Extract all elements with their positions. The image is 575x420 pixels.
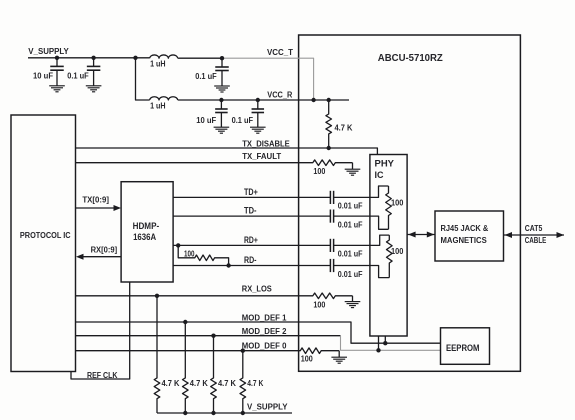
- capacitor C2 0.1 uF: [87, 58, 101, 86]
- wire stem to ground: [352, 296, 354, 302]
- capacitor 0.01 uF on RD-: [330, 259, 333, 272]
- svg-text:10 uF: 10 uF: [33, 72, 53, 81]
- node PHY-EEPROM lower: [376, 348, 380, 352]
- node R1 top: [327, 98, 331, 102]
- bus RX[0:9] arrowhead: [76, 254, 84, 260]
- wire RD+ into PHY with up-jog: [334, 235, 390, 245]
- bus TX[0:9] arrowhead: [114, 205, 122, 211]
- wire RD-: [173, 265, 330, 267]
- svg-text:RJ45 JACK &: RJ45 JACK &: [441, 224, 489, 233]
- ground C3: [214, 86, 230, 92]
- svg-text:VCC_T: VCC_T: [267, 48, 293, 57]
- ground RX_LOS: [345, 302, 361, 308]
- node RD- tap: [226, 263, 230, 267]
- svg-text:MAGNETICS: MAGNETICS: [441, 236, 488, 245]
- svg-text:1 uH: 1 uH: [150, 101, 166, 110]
- wire TD+ into PHY with up-jog: [334, 186, 389, 197]
- svg-text:RD+: RD+: [244, 235, 258, 245]
- svg-text:100: 100: [301, 354, 314, 363]
- node C5: [256, 98, 260, 102]
- wire MOD_DEF 0 with resistor 100: [76, 348, 340, 354]
- svg-text:0.01 uF: 0.01 uF: [338, 270, 363, 279]
- arrow PHY to RJ45: [407, 234, 435, 236]
- wire TX_DISABLE: [76, 148, 378, 155]
- resistor R5 4.7 K pull-up: [240, 351, 246, 413]
- svg-text:100: 100: [391, 247, 404, 256]
- svg-text:VCC_R: VCC_R: [267, 91, 292, 100]
- wire VCC_T jog into module: [222, 58, 314, 100]
- wire VCC_R rail: [178, 99, 349, 101]
- node MOD_DEF2 pull-up tap: [211, 334, 215, 338]
- ground C5: [250, 127, 266, 133]
- node rail 2: [211, 411, 215, 415]
- PHY IC box: [370, 155, 407, 337]
- node PHY-EEPROM upper: [383, 341, 387, 345]
- capacitor 0.01 uF on TD-: [330, 210, 333, 223]
- svg-text:1636A: 1636A: [133, 232, 156, 242]
- node RX_LOS pull-up tap: [155, 294, 159, 298]
- node C4: [219, 98, 223, 102]
- resistor R3 4.7 K pull-up: [183, 322, 189, 413]
- arrow RJ45 to CAT5 cable: [504, 234, 565, 236]
- svg-text:EEPROM: EEPROM: [446, 343, 480, 353]
- wire PHY pin to MOD_DEF 2 line: [378, 336, 380, 350]
- capacitor C5 0.1 uF on VCC_R: [252, 100, 264, 127]
- svg-text:MOD_DEF 0: MOD_DEF 0: [242, 340, 287, 350]
- svg-text:0.01 uF: 0.01 uF: [338, 249, 363, 258]
- wire VCC_T: [178, 57, 222, 59]
- svg-text:REF CLK: REF CLK: [87, 371, 118, 380]
- svg-text:0.1 uF: 0.1 uF: [232, 116, 254, 125]
- resistor 100 across RD pair near HDMP: [178, 245, 228, 265]
- svg-text:1 uH: 1 uH: [150, 59, 166, 68]
- svg-text:TX[0:9]: TX[0:9]: [82, 196, 109, 205]
- node MOD_DEF0 pull-up tap: [241, 349, 245, 353]
- node R1 bottom on TX_DISABLE: [327, 146, 331, 150]
- wire MOD_DEF 2 gray jog to EEPROM: [341, 336, 441, 351]
- wire TX_FAULT with resistor 100: [76, 160, 353, 166]
- ground TX_FAULT: [345, 169, 361, 175]
- svg-text:ABCU-5710RZ: ABCU-5710RZ: [378, 53, 443, 64]
- svg-text:4.7 K: 4.7 K: [190, 379, 208, 388]
- inductor L1 1 uH: [150, 55, 178, 58]
- node VCC_T joins VCC_R: [311, 98, 315, 102]
- wire REF CLK from protocol IC to HDMP: [71, 282, 130, 379]
- svg-text:MOD_DEF 1: MOD_DEF 1: [242, 312, 287, 322]
- node filter split: [133, 56, 137, 60]
- RJ45 jack box: [435, 211, 504, 261]
- svg-text:RX[0:9]: RX[0:9]: [91, 245, 118, 254]
- wire V_SUPPLY rail: [28, 57, 150, 59]
- bus TX[0:9] wire: [76, 207, 115, 209]
- svg-text:100: 100: [391, 198, 404, 207]
- capacitor C4 10 uF on VCC_R: [215, 100, 228, 127]
- resistor 100 termination RD pair inside PHY: [387, 235, 393, 278]
- ground MOD_DEF 0: [331, 357, 347, 363]
- svg-text:10 uF: 10 uF: [196, 116, 216, 125]
- inductor L2 1 uH: [150, 97, 178, 100]
- wire V_SUPPLY bottom rail: [157, 412, 292, 414]
- svg-text:4.7 K: 4.7 K: [247, 379, 263, 388]
- EEPROM box: [441, 328, 490, 365]
- svg-text:PHY: PHY: [375, 159, 395, 170]
- svg-text:0.1 uF: 0.1 uF: [195, 72, 217, 81]
- wire TD- into PHY with down-jog: [334, 216, 389, 229]
- node rail 1: [183, 411, 187, 415]
- ground C2: [86, 86, 102, 92]
- svg-text:IC: IC: [375, 170, 384, 181]
- svg-text:CAT5: CAT5: [525, 224, 543, 233]
- svg-text:100: 100: [313, 301, 326, 310]
- node C3: [220, 56, 224, 60]
- protocol IC box: [11, 115, 76, 372]
- wire branch to VCC_R filter: [136, 58, 150, 100]
- svg-text:V_SUPPLY: V_SUPPLY: [28, 47, 69, 56]
- capacitor C1 10 uF: [50, 58, 64, 86]
- svg-text:MOD_DEF 2: MOD_DEF 2: [242, 326, 287, 336]
- module box ABCU-5710RZ: [299, 35, 521, 371]
- svg-text:TX_FAULT: TX_FAULT: [242, 151, 281, 161]
- node RD+ tap: [176, 243, 180, 247]
- svg-text:100: 100: [313, 167, 326, 176]
- wire TD-: [173, 215, 330, 217]
- resistor R4 4.7 K pull-up: [211, 336, 217, 413]
- resistor R2 4.7 K pull-up: [154, 296, 160, 413]
- svg-text:4.7 K: 4.7 K: [218, 379, 236, 388]
- svg-text:RX_LOS: RX_LOS: [242, 284, 272, 294]
- node MOD_DEF1 pull-up tap: [183, 320, 187, 324]
- node C1: [55, 56, 59, 60]
- svg-text:TX_DISABLE: TX_DISABLE: [242, 139, 290, 149]
- wire MOD_DEF 2 black part: [76, 335, 341, 337]
- wire RD- into PHY with down-jog: [334, 266, 390, 278]
- serdes IC box HDMP-1636A: [121, 182, 173, 282]
- svg-text:TD+: TD+: [244, 187, 258, 197]
- svg-text:0.01 uF: 0.01 uF: [338, 201, 363, 210]
- node rail 3: [241, 411, 245, 415]
- svg-text:V_SUPPLY: V_SUPPLY: [247, 403, 288, 412]
- svg-text:RD-: RD-: [244, 255, 257, 265]
- svg-text:0.1 uF: 0.1 uF: [67, 72, 89, 81]
- wire TD+: [173, 196, 330, 198]
- svg-text:HDMP-: HDMP-: [133, 221, 160, 231]
- svg-text:0.01 uF: 0.01 uF: [338, 220, 363, 229]
- ground C1: [49, 86, 65, 92]
- wire PHY pin to MOD_DEF 1 line: [384, 336, 386, 343]
- svg-text:4.7 K: 4.7 K: [162, 379, 180, 388]
- capacitor 0.01 uF on TD+: [330, 191, 333, 204]
- bus RX[0:9] wire: [82, 256, 121, 258]
- svg-text:PROTOCOL IC: PROTOCOL IC: [20, 231, 71, 240]
- resistor 100 termination TD pair inside PHY: [386, 186, 392, 229]
- resistor R1 4.7 K: [326, 100, 332, 148]
- wire RX_LOS with resistor 100: [76, 293, 353, 299]
- wire stem to ground: [352, 163, 354, 170]
- svg-text:100: 100: [184, 250, 195, 259]
- wire RD+: [173, 244, 330, 246]
- wire MOD_DEF 1 to EEPROM: [76, 322, 441, 343]
- wire stem to ground: [338, 351, 340, 358]
- svg-text:TD-: TD-: [244, 206, 257, 216]
- node C2: [91, 56, 95, 60]
- capacitor 0.01 uF on RD+: [330, 239, 333, 252]
- capacitor C3 0.1 uF on VCC_T: [215, 58, 229, 86]
- ground C4: [214, 127, 230, 133]
- svg-text:CABLE: CABLE: [525, 236, 547, 245]
- svg-text:4.7 K: 4.7 K: [335, 124, 353, 133]
